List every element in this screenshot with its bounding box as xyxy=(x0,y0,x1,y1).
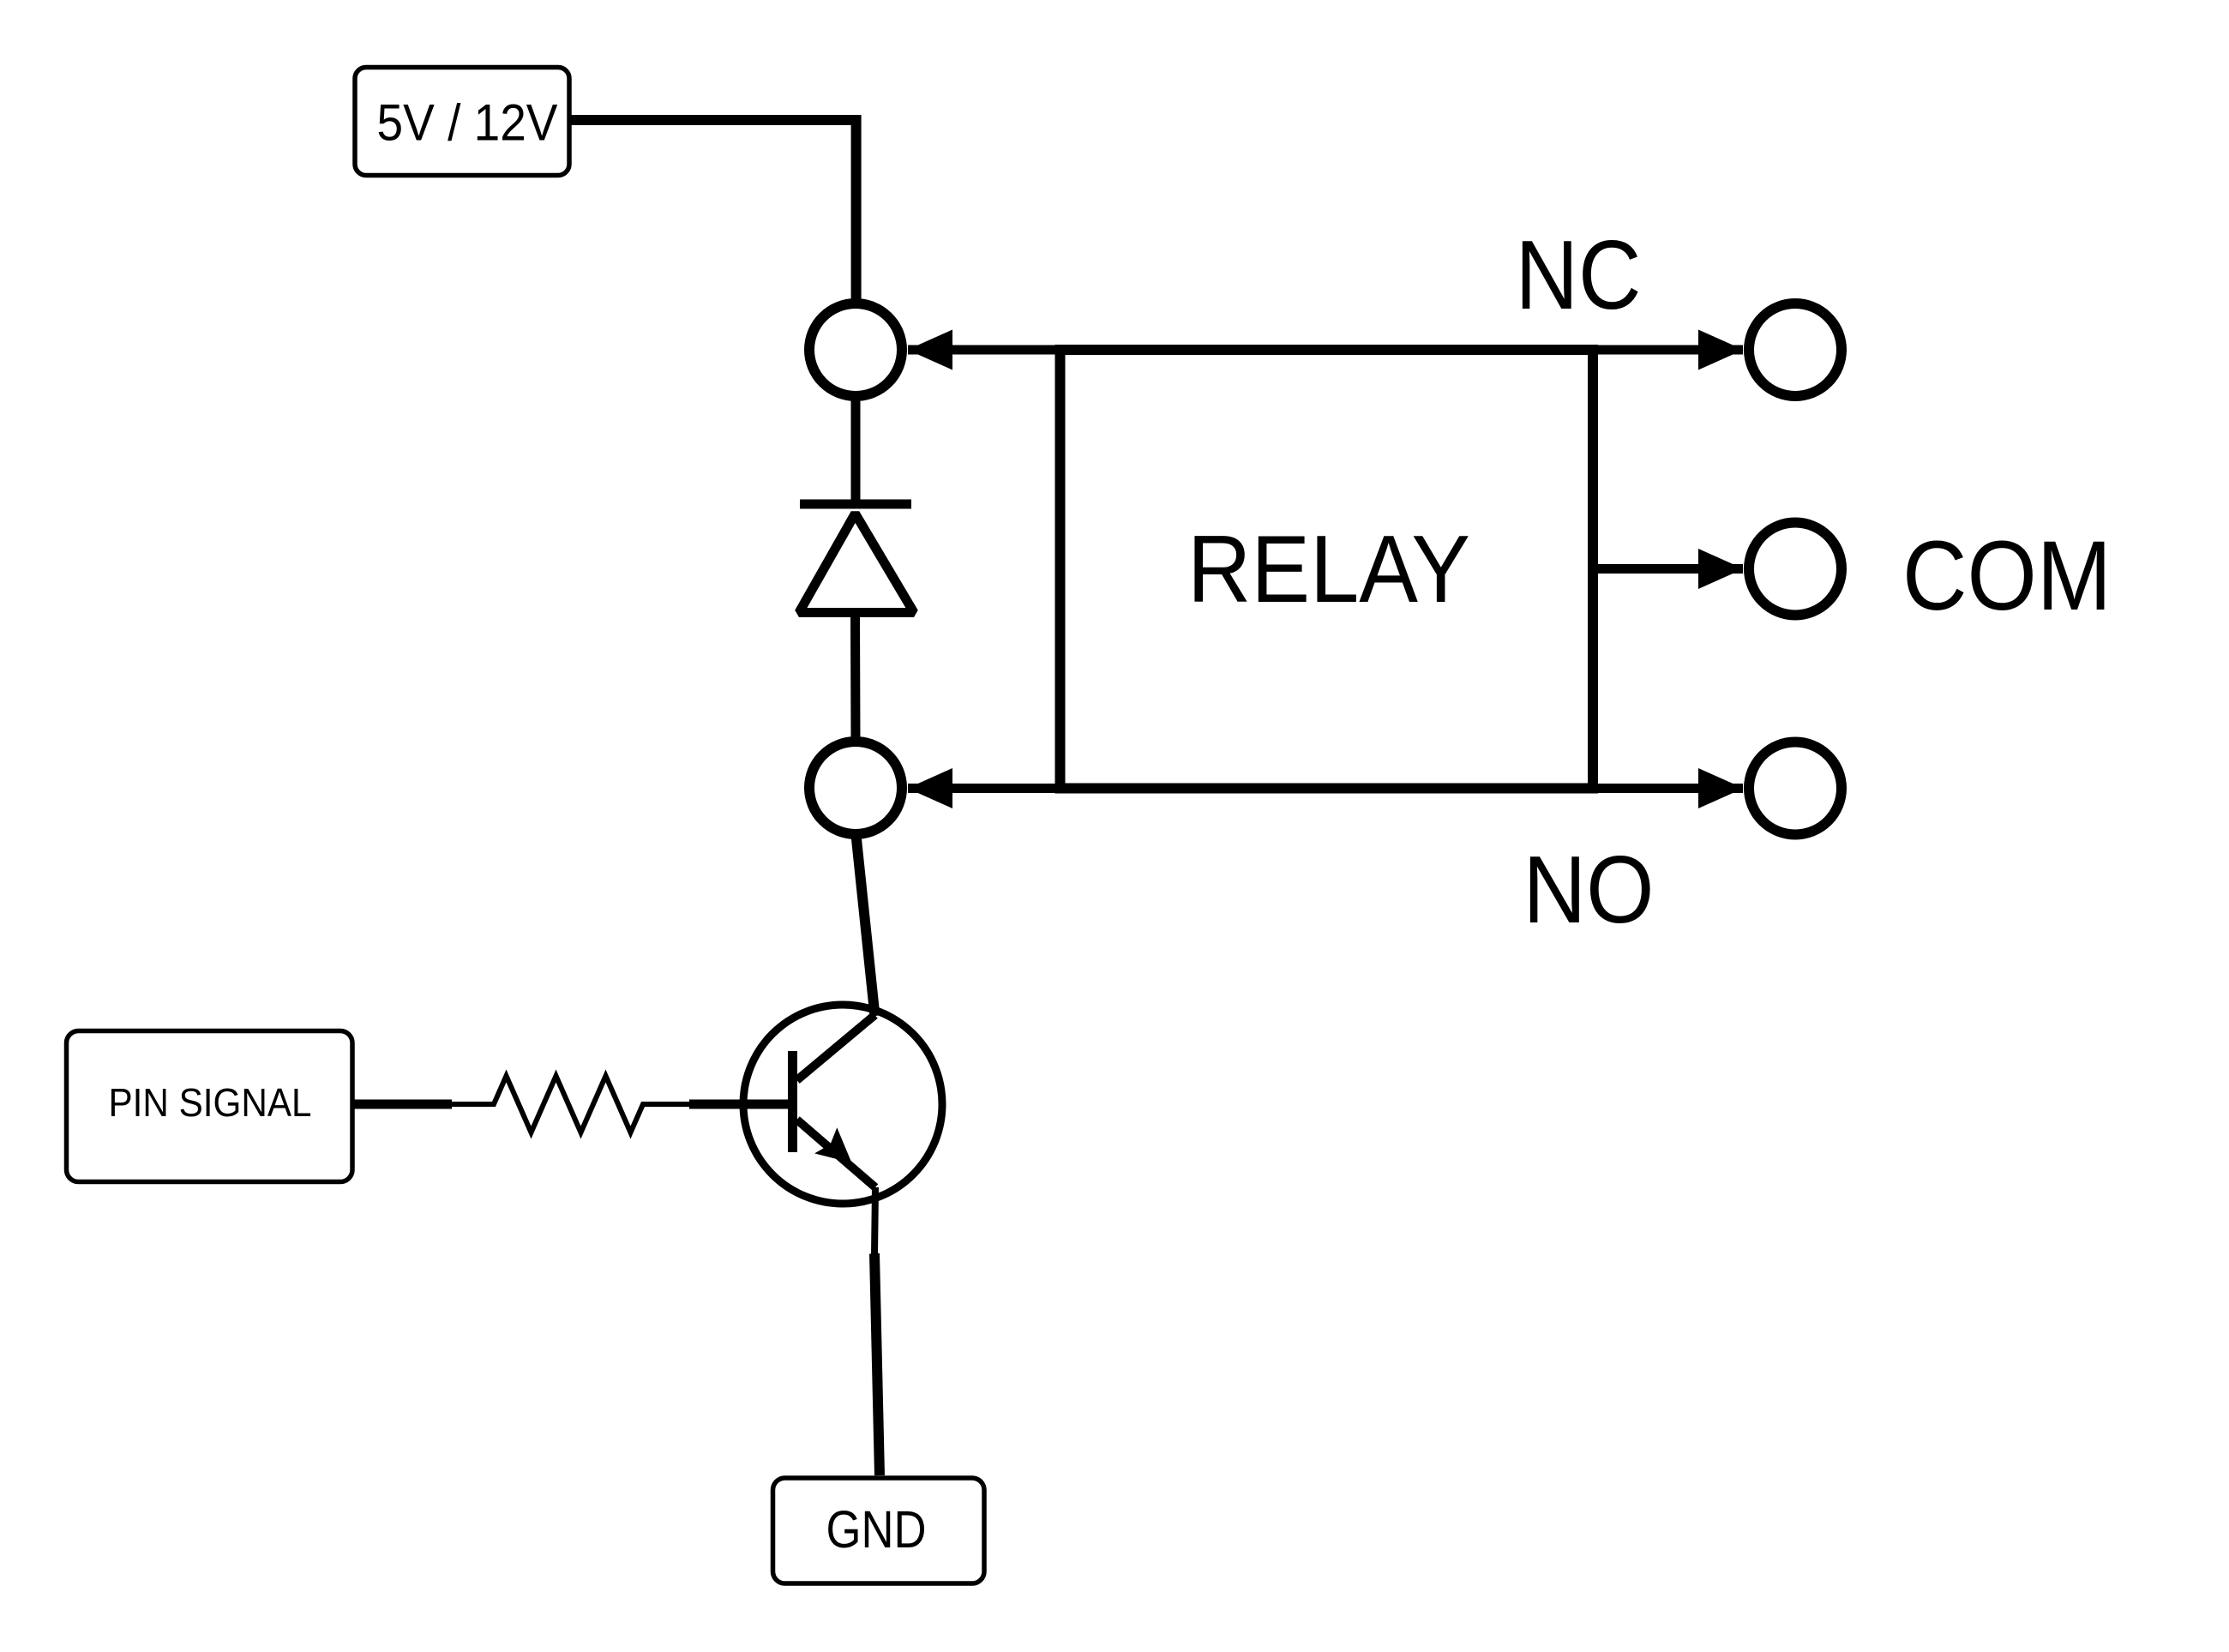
svg-text:PIN SIGNAL: PIN SIGNAL xyxy=(109,1080,312,1125)
wire: coil+ node to diode cathode xyxy=(851,399,861,502)
NC wire xyxy=(908,345,1743,355)
node: relay coil - terminal circle xyxy=(809,742,902,834)
transistor Q1 collector lead xyxy=(797,1015,875,1080)
arrowhead NC right xyxy=(1698,330,1744,370)
COM stub wire xyxy=(1593,564,1743,574)
wire: PIN SIGNAL box to resistor xyxy=(353,1100,452,1109)
wire: emitter to GND xyxy=(874,1187,875,1255)
NO terminal circle xyxy=(1749,742,1841,835)
transistor Q1 base bar xyxy=(788,1051,797,1152)
transistor Q1 body circle xyxy=(743,1005,942,1204)
svg-text:5V / 12V: 5V / 12V xyxy=(377,94,558,152)
NC terminal circle xyxy=(1749,303,1841,396)
svg-text:NC: NC xyxy=(1516,221,1642,330)
resistor R1 xyxy=(450,1076,691,1132)
wire: diode anode to coil- node xyxy=(850,614,861,740)
relay body box xyxy=(1060,350,1594,789)
COM terminal circle xyxy=(1749,523,1841,616)
svg-text:GND: GND xyxy=(826,1500,927,1559)
power terminal box 5V / 12V xyxy=(355,68,569,176)
transistor Q1 emitter arrowhead xyxy=(814,1127,851,1162)
flyback diode D1 anode triangle xyxy=(799,514,914,613)
wire: resistor to transistor base xyxy=(689,1100,794,1109)
arrowhead COM xyxy=(1698,549,1744,589)
node: relay coil + terminal circle xyxy=(809,303,902,396)
GND terminal box xyxy=(773,1478,985,1583)
wire: coil- node to transistor collector xyxy=(856,835,875,1016)
transistor Q1 emitter lead xyxy=(797,1120,876,1187)
NO wire xyxy=(908,784,1743,793)
arrowhead NO left xyxy=(908,768,953,808)
arrowhead NO right xyxy=(1698,768,1744,808)
flyback diode D1 cathode bar xyxy=(800,500,911,509)
wire: 5V/12V box to coil+ node xyxy=(569,120,856,302)
svg-text:RELAY: RELAY xyxy=(1187,516,1470,622)
arrowhead NC left xyxy=(908,330,953,370)
svg-text:COM: COM xyxy=(1902,521,2112,631)
svg-text:NO: NO xyxy=(1523,837,1655,943)
PIN SIGNAL terminal box xyxy=(67,1031,353,1182)
